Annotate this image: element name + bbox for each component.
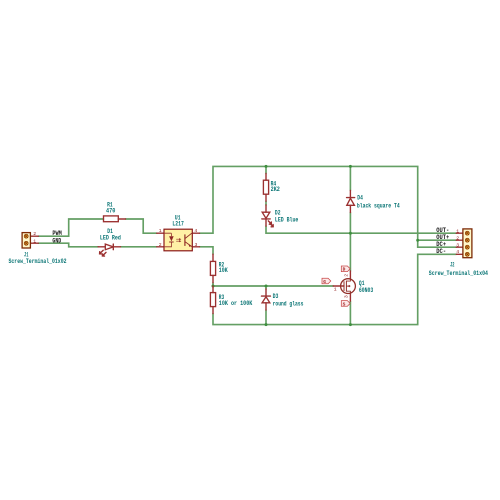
wire top rail to R4 top — [265, 166, 267, 173]
resistor R3 body — [210, 293, 215, 307]
junction bottom rail / D3 — [265, 323, 268, 326]
svg-text:PWM: PWM — [52, 230, 62, 237]
svg-text:Screw_Terminal_01x04: Screw_Terminal_01x04 — [429, 270, 489, 277]
resistor R3 pin stubs — [212, 286, 214, 314]
wire R4 bottom to D2 anode — [265, 201, 267, 205]
connector J2 pad 3 — [465, 245, 469, 249]
svg-text:Q1: Q1 — [359, 280, 365, 287]
wire OUT+ branch to J2 pin2 — [418, 239, 457, 241]
svg-text:LED Blue: LED Blue — [275, 216, 299, 223]
svg-text:60N03: 60N03 — [359, 287, 374, 294]
LED D1 cathode bar — [112, 244, 114, 250]
Q1 G badge — [322, 278, 331, 284]
resistor R4 pin stubs — [265, 174, 267, 202]
svg-text:DC-: DC- — [436, 248, 446, 255]
diode D4 cathode bar — [347, 197, 355, 199]
Q1 mid link with body arrow — [346, 285, 350, 287]
svg-text:S: S — [343, 301, 346, 307]
svg-text:2: 2 — [456, 235, 459, 241]
connector J2 pad 4 — [465, 252, 469, 256]
resistor R2 body — [210, 261, 215, 275]
svg-text:10K: 10K — [219, 267, 228, 274]
diode D3 pin stubs — [265, 289, 267, 310]
Q1 D badge — [341, 266, 350, 272]
diode D4 pin stubs — [349, 190, 351, 212]
LED D2 triangle — [262, 212, 270, 218]
svg-text:4: 4 — [194, 228, 197, 234]
svg-text:4: 4 — [456, 249, 459, 255]
svg-text:OUT+: OUT+ — [436, 234, 449, 241]
connector J1 pin stubs — [30, 236, 38, 243]
wire R3 bottom to bottom rail, across, up right side to DC- at J2 pin4 — [213, 254, 456, 324]
svg-text:J2: J2 — [450, 261, 455, 268]
resistor R1 right pin stub — [118, 218, 125, 220]
LED D2 emission arrows — [268, 221, 271, 224]
svg-text:D: D — [343, 267, 346, 273]
Q1 S badge — [341, 301, 350, 307]
wire GND: J1 pin1 to D1 anode — [38, 243, 98, 247]
svg-text:2: 2 — [33, 231, 36, 237]
wire PWM: J1 pin2 to R1 left — [38, 219, 103, 236]
wire D4 anode down through OUT- junction to Q1 drain — [349, 213, 351, 272]
resistor R4 body — [263, 180, 268, 194]
svg-text:1: 1 — [334, 286, 337, 292]
wire D3 anode to bottom rail — [265, 310, 267, 325]
svg-text:OUT-: OUT- — [436, 227, 449, 234]
wire gate junction to D3 cathode — [265, 286, 267, 289]
transistor Q1 pin stubs — [333, 271, 350, 301]
wire top rail to D4 cathode — [349, 166, 351, 190]
connector J2 body — [463, 229, 472, 258]
U1 phototransistor — [184, 234, 186, 246]
svg-text:3: 3 — [456, 243, 459, 249]
svg-text:round glass: round glass — [273, 301, 304, 308]
svg-text:D4: D4 — [357, 195, 363, 202]
svg-text:3: 3 — [344, 295, 350, 298]
transistor Q1 body circle — [341, 279, 356, 294]
junction OUT- / D4 / Q1 drain — [349, 232, 352, 235]
Q1 channel bar — [345, 281, 347, 292]
LED D2 cathode bar — [262, 218, 270, 220]
connector J2 pin stubs — [456, 233, 463, 254]
Q1 source link — [346, 291, 350, 293]
svg-text:Screw_Terminal_01x02: Screw_Terminal_01x02 — [9, 258, 67, 265]
svg-text:1: 1 — [456, 229, 459, 235]
wire U1 pin3 to R2 top — [200, 247, 214, 254]
svg-text:black square T4: black square T4 — [357, 203, 400, 210]
svg-text:G: G — [323, 279, 326, 285]
LED D2 pin stubs — [265, 205, 267, 226]
svg-text:LED Red: LED Red — [100, 235, 121, 242]
junction gate rail / R2 R3 — [212, 285, 215, 288]
wire GND: D1 cathode to U1 pin2 — [121, 246, 157, 248]
wire OUT+: U1 pin4 up to top rail, across, down right side to DC+ at J2 pin3 — [200, 166, 457, 247]
svg-text:1: 1 — [159, 228, 162, 234]
Q1 gate bar — [343, 281, 345, 291]
svg-text:L217: L217 — [172, 221, 184, 228]
connector J1 pad 2 — [24, 234, 28, 238]
diode D3 triangle — [262, 297, 270, 303]
wire OUT-: D2 cathode to J2 pin1 — [266, 226, 456, 233]
svg-text:2: 2 — [159, 242, 162, 248]
wire PWM: R1 right to U1 pin1 — [126, 219, 157, 233]
Q1 drain link — [346, 279, 350, 281]
diode D3 cathode bar — [262, 295, 271, 297]
U1 light arrows — [176, 238, 180, 242]
resistor R1 body — [104, 216, 119, 222]
junction top rail / R4 — [265, 165, 268, 168]
svg-text:DC+: DC+ — [436, 241, 446, 248]
wire Q1 source to bottom rail — [349, 301, 351, 324]
svg-text:2: 2 — [344, 274, 350, 277]
LED D1 emission arrows — [100, 250, 104, 254]
wire R2 bottom to gate junction — [212, 283, 214, 286]
connector J1 body — [22, 233, 30, 248]
svg-text:470: 470 — [106, 207, 116, 214]
resistor R2 pin stubs — [212, 254, 214, 283]
LED D1 triangle — [105, 244, 113, 250]
connector J1 pad 1 — [24, 241, 28, 245]
svg-text:2K2: 2K2 — [271, 186, 281, 193]
optocoupler U1 body — [164, 229, 192, 251]
svg-text:3: 3 — [195, 242, 198, 248]
LED D1 pin stubs — [98, 246, 120, 248]
svg-text:10K or 100K: 10K or 100K — [219, 300, 253, 307]
connector J2 pad 1 — [465, 231, 469, 235]
diode D4 triangle — [347, 198, 355, 205]
svg-text:1: 1 — [33, 238, 36, 244]
wire gate rail to Q1 gate — [213, 285, 333, 287]
connector J2 pad 2 — [465, 238, 469, 242]
junction OUT+ / right vertical — [416, 239, 419, 242]
svg-text:GND: GND — [52, 237, 61, 244]
junction bottom rail / Q1 source — [349, 323, 352, 326]
junction gate rail / D3 — [265, 285, 268, 288]
U1 internal LED — [165, 233, 172, 247]
svg-text:D3: D3 — [273, 293, 279, 300]
optocoupler U1 pin stubs — [157, 233, 200, 247]
junction top rail / D4 — [349, 165, 352, 168]
